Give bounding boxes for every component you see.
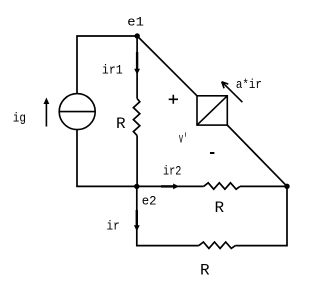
wire: from current source bottom down and right to node e2 — [77, 129, 137, 186]
svg-text:e2: e2 — [142, 193, 157, 208]
label v' — [179, 132, 188, 148]
label a*ir — [236, 77, 262, 92]
label R of resistor R2 — [215, 199, 225, 217]
resistor R2 (middle horizontal zigzag) — [204, 183, 240, 189]
wire: e1 down to resistor R1 — [136, 36, 138, 99]
label ig — [13, 110, 26, 125]
node: right junction dot — [284, 184, 289, 189]
svg-text:e1: e1 — [127, 15, 144, 30]
node e2 (junction dot) — [134, 184, 139, 189]
svg-text:a*ir: a*ir — [236, 77, 262, 92]
label ir — [107, 219, 120, 234]
svg-text:ig: ig — [13, 110, 26, 125]
label R of resistor R1 — [116, 115, 126, 133]
arrow: ir2 current direction (right) — [161, 184, 179, 190]
svg-text:R: R — [215, 199, 225, 217]
arrow: ir current direction (down) — [134, 210, 140, 231]
node e1 (junction dot) — [135, 33, 140, 38]
wire: from node e1 left and down to current source top — [77, 36, 137, 94]
arrow: a*ir source direction (up-left, open head) — [222, 82, 243, 103]
dependent source U1 (box with diagonal) a*ir — [197, 96, 227, 125]
label ir1 — [102, 63, 123, 78]
label e2 — [142, 193, 157, 208]
resistor R1 (vertical zigzag) — [133, 99, 139, 136]
svg-text:v': v' — [179, 132, 188, 148]
resistor R3 (bottom horizontal zigzag) — [199, 242, 236, 248]
polarity minus sign of v' — [210, 152, 214, 154]
label ir2 — [163, 164, 181, 179]
current source ig (circle with horizontal diameter) — [59, 94, 95, 130]
wire: diagonal from e1 to dependent source box — [137, 36, 197, 96]
arrow: ig current direction (up) — [44, 98, 50, 127]
label R of resistor R3 — [200, 262, 210, 280]
wire: e2 down and right to bottom resistor R3 — [137, 186, 199, 245]
wire: e2 right toward middle resistor — [137, 185, 204, 187]
svg-text:ir: ir — [107, 219, 120, 234]
svg-text:ir1: ir1 — [102, 63, 123, 78]
label e1 — [127, 15, 144, 30]
polarity plus sign of v' — [169, 95, 178, 104]
wire: from bottom resistor R3 right and up to right junction — [235, 186, 287, 245]
svg-text:R: R — [200, 262, 210, 280]
wire: middle resistor to right junction — [240, 185, 287, 187]
svg-text:ir2: ir2 — [163, 164, 181, 179]
wire: resistor R1 to node e2 — [136, 136, 138, 187]
arrow: ir1 current direction (down) — [134, 52, 140, 75]
wire: diagonal from dependent source box to right junction — [227, 125, 287, 186]
svg-text:R: R — [116, 115, 126, 133]
